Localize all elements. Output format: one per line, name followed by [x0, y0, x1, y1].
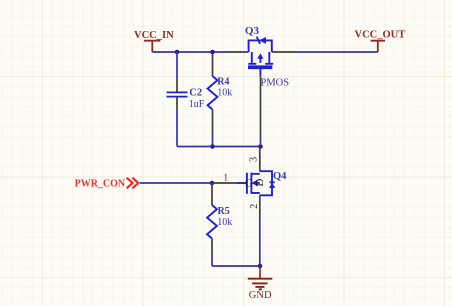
svg-text:Q3: Q3 — [245, 25, 260, 37]
wire R4 bottom — [212, 134, 214, 147]
Q4 pin 2 source — [259, 195, 261, 218]
Q3 pin 1 source — [225, 51, 249, 53]
power port VCC_IN — [134, 30, 174, 52]
Q3 channel arrow — [257, 53, 263, 59]
Q3 pin 3 drain — [272, 51, 296, 53]
svg-text:R4: R4 — [217, 76, 229, 87]
power port VCC_OUT — [355, 30, 406, 53]
Q4 pin 1 gate — [214, 182, 237, 184]
svg-text:Q4: Q4 — [273, 171, 287, 182]
junction at R4 top — [210, 50, 215, 55]
svg-text:G: G — [245, 178, 253, 190]
R5 pin top — [211, 184, 213, 206]
Q4 channel arrow — [252, 180, 258, 187]
R4 pin top — [212, 53, 214, 76]
svg-text:R5: R5 — [218, 206, 230, 217]
C2 plates — [167, 92, 188, 96]
C2 pins — [176, 80, 178, 109]
junction at C2 top — [175, 50, 180, 55]
svg-text:VCC_OUT: VCC_OUT — [355, 30, 406, 41]
port PWR_CON — [75, 178, 139, 190]
resistor R5 — [207, 184, 232, 267]
svg-text:10k: 10k — [217, 217, 232, 228]
wire Q4 source down — [259, 219, 261, 267]
R5 zigzag — [207, 205, 217, 239]
Q3 body graphics — [248, 37, 273, 76]
svg-text:VCC_IN: VCC_IN — [134, 30, 174, 41]
Q3 body diode triangle — [259, 37, 266, 44]
ground — [248, 266, 272, 301]
junction at R4 bottom — [210, 144, 215, 149]
wire C2 top — [176, 52, 178, 80]
svg-text:3: 3 — [249, 157, 260, 162]
svg-text:10k: 10k — [217, 88, 232, 99]
wire Q3 gate stub — [260, 140, 262, 147]
wire gate node horizontal — [177, 146, 261, 148]
ground bars — [248, 279, 272, 290]
junction at Q3 gate node — [258, 144, 263, 149]
Q4 body diode triangle — [269, 183, 275, 188]
wire R5 bottom — [211, 259, 213, 267]
Q4 body graphics — [236, 171, 274, 195]
svg-text:1: 1 — [223, 173, 228, 183]
R4 pin bottom — [212, 110, 214, 134]
wire PWR_CON to Q4 gate — [140, 182, 214, 184]
wire bottom node — [212, 265, 260, 267]
svg-text:PMOS: PMOS — [261, 77, 290, 88]
svg-text:GND: GND — [249, 290, 272, 301]
Q3 pin 2 gate — [260, 76, 262, 140]
transistor Q4 — [214, 148, 288, 219]
junction at GND — [258, 264, 263, 269]
transistor Q3 — [225, 25, 296, 140]
R5 pin bottom — [211, 239, 213, 259]
R4 zigzag — [208, 76, 218, 110]
svg-text:D: D — [254, 179, 266, 187]
junction at R5 top — [210, 181, 215, 186]
svg-text:C2: C2 — [189, 87, 202, 98]
wire Q3 drain to VCC_OUT — [296, 51, 378, 53]
wire C2 bottom — [176, 109, 178, 147]
resistor R4 — [208, 53, 233, 147]
svg-text:1uF: 1uF — [189, 99, 205, 110]
capacitor C2 — [167, 52, 205, 147]
svg-text:PWR_CON: PWR_CON — [75, 178, 126, 189]
svg-text:2: 2 — [249, 204, 260, 209]
Q4 pin 3 drain — [259, 148, 261, 171]
ground stem — [259, 266, 261, 278]
wire VCC_IN rail — [152, 51, 225, 53]
